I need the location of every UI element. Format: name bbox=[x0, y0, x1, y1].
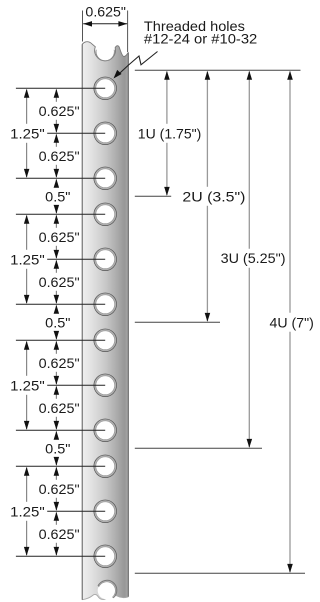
label 0.625" group 4 bbox=[37, 481, 81, 496]
dimension 0.625in group 2 bbox=[55, 216, 57, 228]
label 0.5" gap after group 2 bbox=[44, 315, 72, 330]
extension line left (rail width) bbox=[82, 11, 84, 42]
threaded hole H2 bbox=[94, 122, 117, 145]
rail bottom torn edge bbox=[82, 594, 128, 599]
label 0.625" group 3 bbox=[37, 355, 81, 370]
label 0.625" group 2 bbox=[37, 229, 81, 244]
reference line hole H12 center bbox=[16, 555, 105, 557]
dimension 0.625in group 4 bbox=[55, 468, 57, 480]
svg-text:0.625": 0.625" bbox=[39, 274, 80, 290]
threaded hole H12 bbox=[94, 545, 117, 568]
label 1U (1.75") bbox=[135, 125, 204, 141]
dimension 0.5in gap after group 2 bbox=[55, 306, 57, 314]
rail top torn edge bbox=[82, 42, 128, 61]
reference line hole H5 center bbox=[47, 258, 105, 260]
svg-text:1.25": 1.25" bbox=[10, 125, 45, 141]
threaded hole H10 bbox=[94, 455, 117, 478]
reference line hole H11 center bbox=[47, 510, 105, 512]
dimension line 3U (5.25 in) bbox=[248, 72, 250, 249]
svg-text:#12-24 or #10-32: #12-24 or #10-32 bbox=[144, 31, 258, 47]
svg-text:2U (3.5"): 2U (3.5") bbox=[182, 188, 245, 204]
threaded hole H3 bbox=[94, 167, 117, 190]
dimension line 1U (1.75 in) bbox=[166, 72, 168, 124]
svg-text:0.625": 0.625" bbox=[39, 526, 80, 542]
label 0.625" group 1 bbox=[37, 148, 81, 163]
reference line hole H7 center bbox=[16, 339, 105, 341]
svg-text:1U (1.75"): 1U (1.75") bbox=[138, 125, 202, 141]
svg-text:0.625": 0.625" bbox=[39, 103, 80, 119]
extension line right (rail width) bbox=[127, 11, 129, 53]
reference line hole H9 center bbox=[16, 429, 105, 431]
reference line at 2U boundary bbox=[135, 321, 220, 323]
svg-text:3U (5.25"): 3U (5.25") bbox=[221, 250, 286, 266]
svg-text:4U (7"): 4U (7") bbox=[270, 314, 314, 330]
threaded hole H6 bbox=[94, 293, 117, 316]
label 0.625" group 4 bbox=[37, 526, 81, 541]
threaded hole H9 bbox=[94, 419, 117, 442]
rail right edge bbox=[127, 52, 129, 596]
svg-text:0.625": 0.625" bbox=[39, 481, 80, 497]
dimension 0.625in group 3 bbox=[55, 387, 57, 399]
threaded hole H7 bbox=[94, 329, 117, 352]
label 1.25" group 1 bbox=[9, 126, 47, 141]
top notch (partial threaded hole at break) bbox=[96, 42, 114, 61]
dimension 1.25in group 1 bbox=[26, 90, 28, 124]
label 1.25" group 3 bbox=[9, 378, 47, 393]
svg-text:0.5": 0.5" bbox=[45, 440, 70, 456]
reference line hole H8 center bbox=[47, 384, 105, 386]
dimension 0.625in group 2 bbox=[55, 261, 57, 273]
svg-text:0.625": 0.625" bbox=[85, 3, 126, 19]
svg-text:0.5": 0.5" bbox=[45, 188, 70, 204]
svg-text:0.625": 0.625" bbox=[39, 148, 80, 164]
label 2U (3.5") bbox=[180, 188, 248, 204]
label 3U (5.25") bbox=[218, 250, 288, 266]
rail left edge bbox=[81, 44, 83, 599]
threaded hole H1 bbox=[94, 77, 117, 100]
threaded hole H5 bbox=[94, 248, 117, 271]
dimension 0.625in group 1 bbox=[55, 90, 57, 102]
threaded hole H11 bbox=[94, 500, 117, 523]
threaded hole H4 bbox=[94, 203, 117, 226]
label 0.625" group 3 bbox=[37, 400, 81, 415]
reference line at 4U boundary bbox=[135, 572, 305, 574]
dimension line 4U (7 in) bbox=[289, 72, 291, 313]
svg-text:0.625": 0.625" bbox=[39, 229, 80, 245]
rail (mounting rail body with torn break edges) bbox=[82, 42, 128, 600]
reference line hole H6 center bbox=[16, 303, 105, 305]
dimension 0.5in gap after group 3 bbox=[55, 432, 57, 440]
dimension line 2U (3.5 in) bbox=[206, 72, 208, 187]
dimension 0.5in gap after group 1 bbox=[55, 180, 57, 188]
bottom notch (partial threaded hole at break) bbox=[98, 580, 117, 599]
threaded hole H8 bbox=[94, 374, 117, 397]
dimension 0.625in group 4 bbox=[55, 513, 57, 525]
reference line hole H2 center bbox=[47, 132, 105, 134]
svg-text:1.25": 1.25" bbox=[10, 251, 45, 267]
dimension 1.25in group 4 bbox=[26, 468, 28, 502]
reference line at top boundary bbox=[135, 69, 301, 71]
svg-text:0.5": 0.5" bbox=[45, 314, 70, 330]
dimension 0.625in group 1 bbox=[55, 135, 57, 147]
svg-text:1.25": 1.25" bbox=[10, 377, 45, 393]
label 0.5" gap after group 1 bbox=[44, 189, 72, 204]
dimension line 0.625in rail width bbox=[83, 23, 127, 25]
reference line hole H3 center bbox=[16, 177, 105, 179]
reference line hole H10 center bbox=[16, 465, 105, 467]
reference line hole H4 center bbox=[16, 213, 105, 215]
reference line at 1U boundary bbox=[135, 195, 171, 197]
label 4U (7") bbox=[267, 314, 316, 330]
svg-text:0.625": 0.625" bbox=[39, 400, 80, 416]
label 0.625" group 1 bbox=[37, 103, 81, 118]
svg-text:0.625": 0.625" bbox=[39, 355, 80, 371]
label 1.25" group 4 bbox=[9, 504, 47, 519]
svg-text:1.25": 1.25" bbox=[10, 503, 45, 519]
leader line with break zigzag to hole H1 bbox=[116, 52, 157, 77]
label 0.625" group 2 bbox=[37, 274, 81, 289]
label 0.5" gap after group 3 bbox=[44, 441, 72, 456]
dimension 1.25in group 3 bbox=[26, 342, 28, 376]
label 1.25" group 2 bbox=[9, 252, 47, 267]
dimension 1.25in group 2 bbox=[26, 216, 28, 250]
reference line hole H1 center bbox=[16, 87, 105, 89]
dimension 0.625in group 3 bbox=[55, 342, 57, 354]
reference line at 3U boundary bbox=[135, 447, 262, 449]
